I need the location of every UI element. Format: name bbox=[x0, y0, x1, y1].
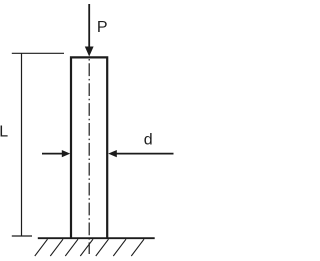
svg-text:L: L bbox=[0, 124, 8, 141]
ground hatch 1 bbox=[35, 239, 48, 256]
centerline (dash-dot axis) bbox=[88, 59, 90, 254]
ground hatch 7 bbox=[131, 239, 144, 256]
ground line bbox=[38, 237, 155, 239]
load arrow P head bbox=[85, 47, 94, 57]
dimension extension tick top bbox=[12, 52, 64, 54]
column outline bbox=[71, 57, 107, 238]
dimension extension tick bottom bbox=[12, 235, 32, 237]
svg-text:d: d bbox=[144, 132, 153, 149]
right diameter arrow head bbox=[108, 150, 117, 157]
dimension line L vertical bbox=[21, 53, 23, 236]
ground hatch 5 bbox=[96, 239, 109, 256]
right diameter arrow stem bbox=[117, 153, 174, 155]
ground hatch 4 bbox=[80, 239, 93, 256]
ground hatch 2 bbox=[50, 239, 63, 256]
left diameter arrow stem bbox=[42, 153, 63, 155]
load arrow P stem bbox=[88, 4, 90, 48]
ground hatch 3 bbox=[65, 239, 78, 256]
ground hatch 6 bbox=[113, 239, 126, 256]
left diameter arrow head bbox=[62, 150, 70, 157]
svg-text:P: P bbox=[97, 19, 108, 36]
